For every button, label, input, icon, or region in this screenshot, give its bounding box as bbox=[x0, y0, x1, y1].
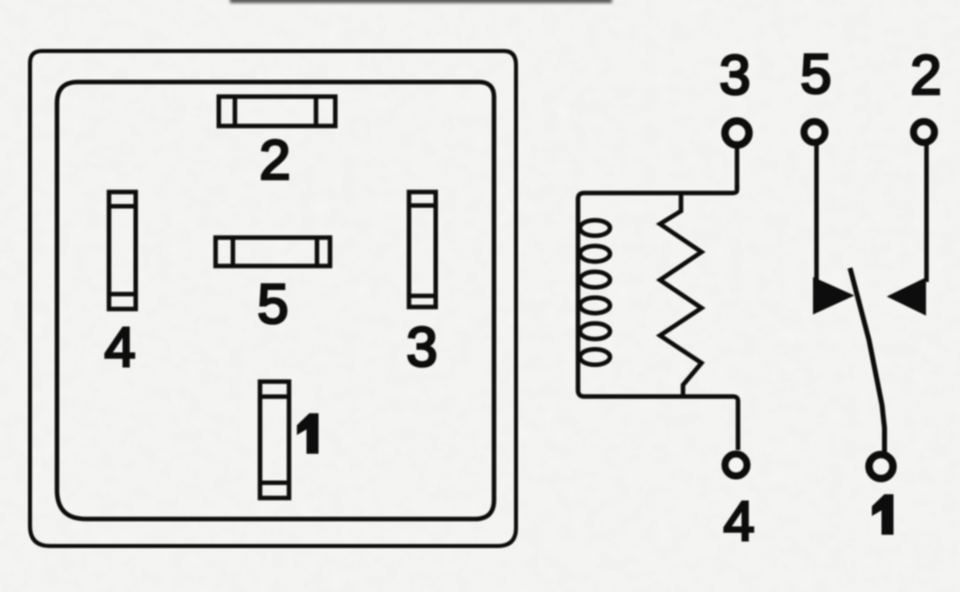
pin slot 5 bbox=[216, 238, 330, 266]
wire: terminal 5 to left contact bbox=[814, 145, 819, 282]
svg-text:5: 5 bbox=[800, 42, 831, 105]
scan artifact bar at top edge bbox=[230, 0, 612, 3]
wire: terminal 2 to right contact bbox=[924, 145, 929, 282]
relay socket inner body bbox=[57, 82, 494, 519]
resistor R1 zigzag bbox=[660, 193, 702, 397]
switch arm wire bbox=[850, 268, 885, 452]
svg-text:3: 3 bbox=[719, 43, 750, 106]
coil terminal 3 circle bbox=[725, 121, 749, 145]
switch terminal 5 circle bbox=[804, 122, 825, 143]
left contact triangle bbox=[814, 279, 852, 314]
switch terminal 1 circle bbox=[869, 455, 893, 479]
pin slot 4 bbox=[109, 192, 136, 309]
svg-text:4: 4 bbox=[723, 489, 754, 552]
pin slot 2 bbox=[219, 97, 335, 126]
svg-text:5: 5 bbox=[257, 272, 288, 335]
svg-text:3: 3 bbox=[406, 315, 437, 378]
pin slot 1 bbox=[260, 382, 289, 498]
switch terminal 2 circle bbox=[914, 122, 935, 143]
svg-text:4: 4 bbox=[104, 315, 135, 378]
wire: coil frame (top line, left line, bottom line, right drop) bbox=[578, 186, 738, 450]
relay socket outer body bbox=[30, 51, 516, 546]
svg-text:2: 2 bbox=[259, 128, 290, 191]
wire: terminal 3 to coil top bbox=[735, 146, 740, 188]
pin 1 label bbox=[298, 414, 318, 453]
coil terminal 4 circle bbox=[725, 454, 747, 476]
switch terminal 1 label bbox=[873, 495, 893, 534]
coil L1 loops bbox=[580, 220, 610, 365]
pin slot 3 bbox=[409, 192, 436, 307]
svg-text:2: 2 bbox=[910, 43, 941, 106]
right contact triangle bbox=[889, 279, 925, 314]
